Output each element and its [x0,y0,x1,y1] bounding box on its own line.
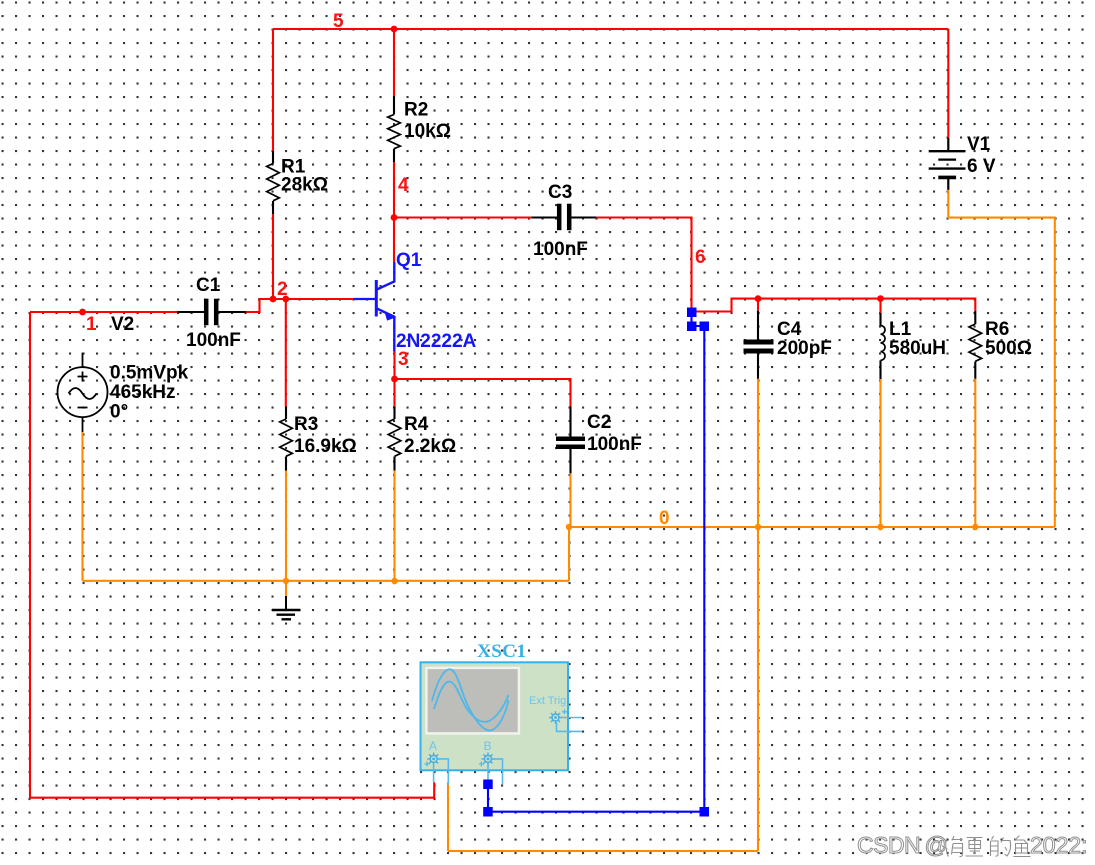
svg-text:CSDN: CSDN [857,832,920,858]
junction handle c [700,322,710,332]
junction handle d [700,807,710,817]
svg-text:465kHz: 465kHz [110,382,176,403]
junction gnd R4 [391,578,397,584]
resistor R6 [969,311,982,379]
svg-text:XSC1: XSC1 [477,641,527,662]
svg-text:10kΩ: 10kΩ [404,121,451,142]
scope terminal B [482,753,495,766]
resistor R2 [388,96,401,162]
junction net0 C2 [566,524,572,530]
wire C4 bottom long [448,379,758,851]
svg-text:3: 3 [398,349,409,370]
wire node3 to C2 [395,379,571,407]
junction handle a [687,308,697,318]
svg-text:100nF: 100nF [186,330,241,351]
wire gnd link up [568,527,570,581]
wire net0 rail [569,526,1055,528]
junction node2 b [282,296,289,303]
junction handle b [687,322,697,332]
svg-text:200pF: 200pF [777,338,832,359]
junction node4 [391,214,398,221]
svg-text:4: 4 [398,175,409,196]
wire R6 bottom [974,379,976,527]
scope A plus sign [425,762,430,767]
svg-text:0.5mVpk: 0.5mVpk [110,363,189,384]
svg-text:2022:: 2022: [1030,832,1088,858]
wire node4 to C3 [394,216,532,218]
svg-text:580uH: 580uH [889,338,946,359]
capacitor C2 [556,407,585,474]
capacitor C4 [744,311,774,379]
wire emitter to R4 [393,352,395,407]
svg-text:1: 1 [86,314,97,335]
svg-text:R4: R4 [404,414,429,435]
scope Ext plus sign [562,709,567,714]
junction net0 L1 [877,524,883,530]
oscilloscope XSC1 [421,662,569,770]
wire R1 top [272,29,274,151]
wire node2 to R3 [285,299,287,407]
scope A pin wires [434,759,449,785]
svg-text:L1: L1 [889,319,912,340]
svg-text:2: 2 [277,279,288,300]
svg-text:6: 6 [695,247,706,268]
svg-text:V2: V2 [111,314,134,335]
svg-text:5: 5 [333,11,344,32]
ground [272,596,300,619]
wire R1 bottom to node2 [272,214,274,299]
wire gnd V2 bottom [83,432,570,581]
source V2 [58,353,108,432]
junction node5/R2 [391,26,398,33]
battery V1 [929,138,966,190]
scope terminal Ext [549,711,562,724]
inductor L1 [881,313,886,379]
resistor R3 [280,407,293,471]
wire V2 to C1 [30,311,178,313]
junction gnd R3 [283,578,289,584]
wire C2 bottom [569,473,571,527]
wire gnd R4 bottom [393,471,395,582]
wire V1 top [947,29,949,138]
wire L1 bottom [879,379,881,527]
svg-text:500Ω: 500Ω [985,338,1032,359]
wire C3 to node6 corner [596,218,691,311]
svg-text:Q1: Q1 [396,250,422,271]
svg-text:2N2222A: 2N2222A [396,331,477,352]
junction net0 C4 [755,524,761,530]
junction L1 top [877,295,884,302]
svg-text:@: @ [925,832,948,858]
wire R2 top [393,29,395,96]
svg-text:0: 0 [659,508,670,529]
junction net0 R6 [972,524,978,530]
svg-text:100nF: 100nF [533,239,588,260]
resistor R1 [267,151,280,214]
svg-text:C1: C1 [196,275,221,296]
svg-text:V1: V1 [967,134,991,155]
wire R2 bottom to collector [393,162,395,262]
wire node6 jog to tank rail [694,299,975,312]
svg-text:R3: R3 [294,414,318,435]
wire input left vertical [30,312,434,798]
svg-text:C3: C3 [548,182,572,203]
capacitor C1 [178,299,247,326]
junction node3 [391,376,398,383]
svg-text:R2: R2 [404,100,428,121]
transistor Q1 [354,262,395,352]
scope terminal A [427,753,440,766]
svg-text:100nF: 100nF [587,434,642,455]
watermark [857,832,1088,858]
junction C4 top [755,295,762,302]
svg-text:0°: 0° [110,402,128,423]
svg-text:16.9kΩ: 16.9kΩ [294,436,357,457]
wire gnd R3 bottom [285,471,287,582]
resistor R4 [388,407,401,471]
scope B plus sign [479,762,484,767]
wire scope B selected blue [488,312,704,812]
svg-text:6 V: 6 V [967,156,996,177]
svg-text:C2: C2 [587,412,611,433]
junction node2 a [270,296,277,303]
junction V2 top [79,309,86,316]
wire L1 stub [879,299,881,313]
capacitor C3 [532,204,597,231]
wire V1 bottom to net0 [948,190,1055,527]
svg-text:A: A [429,739,437,753]
scope Ext pin wires [557,718,583,732]
svg-text:R6: R6 [985,319,1009,340]
svg-text:28kΩ: 28kΩ [281,175,328,196]
junction handle f [483,780,493,790]
svg-text:2.2kΩ: 2.2kΩ [404,436,456,457]
svg-text:B: B [484,739,492,753]
wire net5 top rail [273,28,948,30]
svg-text:Ext Trig: Ext Trig [529,695,566,707]
svg-text:C4: C4 [777,319,802,340]
wire gnd stub to ground symbol [285,581,287,596]
junction handle e [483,807,493,817]
wire C4 stub [757,299,759,311]
scope B pin wires [488,759,503,784]
wire C1 to node2 [246,299,354,312]
